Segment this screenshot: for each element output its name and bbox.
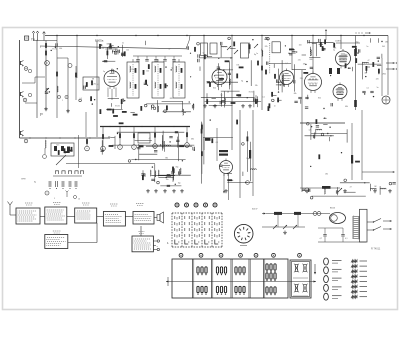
svg-text:68k: 68k <box>310 59 313 61</box>
svg-text:82k: 82k <box>318 98 321 100</box>
svg-text:82k: 82k <box>345 55 348 57</box>
svg-text:5n: 5n <box>122 42 124 44</box>
svg-text:220: 220 <box>335 41 338 43</box>
svg-text:5p: 5p <box>171 67 173 69</box>
svg-text:68k: 68k <box>345 106 348 108</box>
svg-text:68k: 68k <box>191 139 194 141</box>
svg-text:8p: 8p <box>241 81 243 83</box>
svg-text:1n: 1n <box>256 53 258 55</box>
svg-text:0,1: 0,1 <box>262 96 265 98</box>
svg-text:P: P <box>40 112 43 117</box>
svg-text:5p: 5p <box>103 71 105 73</box>
svg-text:5n: 5n <box>366 46 368 48</box>
svg-text:12k: 12k <box>126 49 129 51</box>
svg-text:EC92: EC92 <box>115 105 120 107</box>
svg-text:39p: 39p <box>175 167 178 169</box>
svg-text:8p: 8p <box>221 94 223 96</box>
svg-text:82k: 82k <box>101 48 104 50</box>
svg-text:82k: 82k <box>170 98 173 100</box>
svg-text:82k: 82k <box>265 46 268 48</box>
svg-text:100: 100 <box>146 70 149 72</box>
svg-text:B605a: B605a <box>95 39 104 43</box>
svg-text:0,1: 0,1 <box>216 142 219 144</box>
svg-text:68k: 68k <box>59 48 62 50</box>
svg-text:10n: 10n <box>131 69 134 71</box>
svg-text:8p: 8p <box>34 182 36 184</box>
svg-text:0,1: 0,1 <box>367 88 370 90</box>
svg-text:68k: 68k <box>153 147 156 149</box>
svg-text:12k: 12k <box>309 129 312 131</box>
svg-text:47: 47 <box>350 186 352 188</box>
svg-text:EC92: EC92 <box>92 83 97 85</box>
svg-text:220: 220 <box>300 78 303 80</box>
svg-text:3k3: 3k3 <box>181 111 184 113</box>
svg-text:47: 47 <box>149 138 151 140</box>
svg-text:82k: 82k <box>213 87 216 89</box>
svg-text:220: 220 <box>298 60 301 62</box>
svg-text:18k: 18k <box>255 85 258 87</box>
svg-text:2M2: 2M2 <box>382 74 386 76</box>
svg-text:1: 1 <box>62 100 63 102</box>
svg-text:15p: 15p <box>178 182 181 184</box>
svg-text:47: 47 <box>368 60 370 62</box>
svg-text:EF89: EF89 <box>21 178 25 180</box>
svg-text:47: 47 <box>169 49 171 51</box>
svg-text:4,7: 4,7 <box>320 238 323 240</box>
svg-text:TV: TV <box>31 38 35 42</box>
svg-text:4k7: 4k7 <box>204 54 207 56</box>
svg-text:EC92: EC92 <box>52 48 57 50</box>
svg-text:10n: 10n <box>166 179 169 181</box>
svg-text:0,1: 0,1 <box>285 63 288 65</box>
svg-text:15p: 15p <box>246 158 249 160</box>
svg-text:1n: 1n <box>274 105 276 107</box>
svg-text:220: 220 <box>376 79 379 81</box>
svg-text:R 74011: R 74011 <box>371 248 381 251</box>
svg-text:68k: 68k <box>165 157 168 159</box>
svg-text:68k: 68k <box>107 43 110 45</box>
svg-text:0,1: 0,1 <box>97 84 100 86</box>
svg-text:EL84: EL84 <box>330 208 336 210</box>
svg-text:18k: 18k <box>325 174 328 176</box>
svg-text:3k3: 3k3 <box>382 46 385 48</box>
svg-text:300 V: 300 V <box>252 209 258 211</box>
svg-text:10: 10 <box>78 199 80 201</box>
svg-text:18k: 18k <box>236 64 239 66</box>
svg-text:5p: 5p <box>333 49 335 51</box>
svg-text:5n: 5n <box>114 72 116 74</box>
svg-text:EC92: EC92 <box>249 92 254 94</box>
svg-text:18k: 18k <box>108 136 111 138</box>
svg-text:15p: 15p <box>356 42 359 44</box>
svg-text:100: 100 <box>299 45 302 47</box>
svg-text:68k: 68k <box>294 93 297 95</box>
svg-text:4k7: 4k7 <box>364 72 367 74</box>
svg-text:0,1: 0,1 <box>345 238 348 240</box>
svg-text:5n: 5n <box>377 87 379 89</box>
svg-text:18k: 18k <box>385 42 388 44</box>
